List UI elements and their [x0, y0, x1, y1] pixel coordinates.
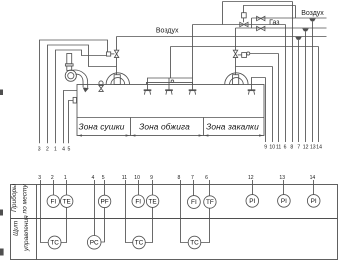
svg-text:12: 12	[303, 144, 309, 150]
svg-text:4: 4	[91, 175, 94, 181]
svg-text:TC: TC	[190, 240, 199, 247]
svg-text:14: 14	[316, 144, 322, 150]
svg-text:10: 10	[134, 175, 140, 181]
svg-text:3: 3	[38, 146, 41, 152]
svg-text:5: 5	[67, 146, 70, 152]
svg-text:14: 14	[310, 175, 316, 181]
svg-text:Воздух: Воздух	[301, 10, 324, 17]
svg-text:9: 9	[264, 144, 267, 150]
svg-text:TE: TE	[149, 198, 157, 205]
svg-text:6: 6	[205, 175, 208, 181]
svg-text:Приборы: Приборы	[10, 184, 18, 212]
svg-text:PI: PI	[281, 198, 287, 205]
svg-text:11: 11	[122, 175, 127, 181]
svg-text:PI: PI	[249, 198, 255, 205]
svg-text:3: 3	[38, 175, 41, 181]
svg-text:Зона обжига: Зона обжига	[139, 122, 190, 132]
svg-text:7: 7	[297, 144, 300, 150]
svg-text:2: 2	[46, 146, 49, 152]
svg-text:TF: TF	[206, 199, 214, 206]
svg-text:TC: TC	[50, 240, 59, 247]
svg-text:10: 10	[269, 144, 275, 150]
svg-text:13: 13	[310, 144, 316, 150]
svg-text:9: 9	[150, 175, 153, 181]
svg-text:PI: PI	[311, 198, 317, 205]
svg-text:7: 7	[191, 175, 194, 181]
svg-text:Щит: Щит	[12, 220, 19, 236]
svg-text:1: 1	[64, 175, 67, 181]
svg-text:8: 8	[177, 175, 180, 181]
svg-text:12: 12	[248, 175, 254, 181]
svg-text:PC: PC	[90, 240, 99, 247]
svg-text:управления: управления	[23, 215, 30, 252]
svg-text:4: 4	[62, 146, 65, 152]
svg-text:Газ: Газ	[269, 20, 279, 27]
svg-text:Зона сушки: Зона сушки	[78, 122, 124, 132]
svg-text:Зона закалки: Зона закалки	[206, 122, 259, 132]
svg-text:FI: FI	[191, 199, 197, 206]
svg-text:TE: TE	[63, 198, 71, 205]
svg-text:TC: TC	[135, 240, 144, 247]
svg-text:Воздух: Воздух	[156, 27, 179, 34]
svg-text:13: 13	[279, 175, 285, 181]
svg-text:по месту: по месту	[21, 184, 28, 214]
svg-text:11: 11	[276, 144, 281, 150]
svg-text:FI: FI	[135, 198, 141, 205]
svg-text:5: 5	[102, 175, 105, 181]
svg-text:FI: FI	[50, 198, 56, 205]
svg-text:2: 2	[51, 175, 54, 181]
svg-text:PF: PF	[101, 199, 109, 206]
svg-text:8: 8	[290, 144, 293, 150]
svg-text:6: 6	[284, 144, 287, 150]
svg-text:1: 1	[54, 146, 57, 152]
